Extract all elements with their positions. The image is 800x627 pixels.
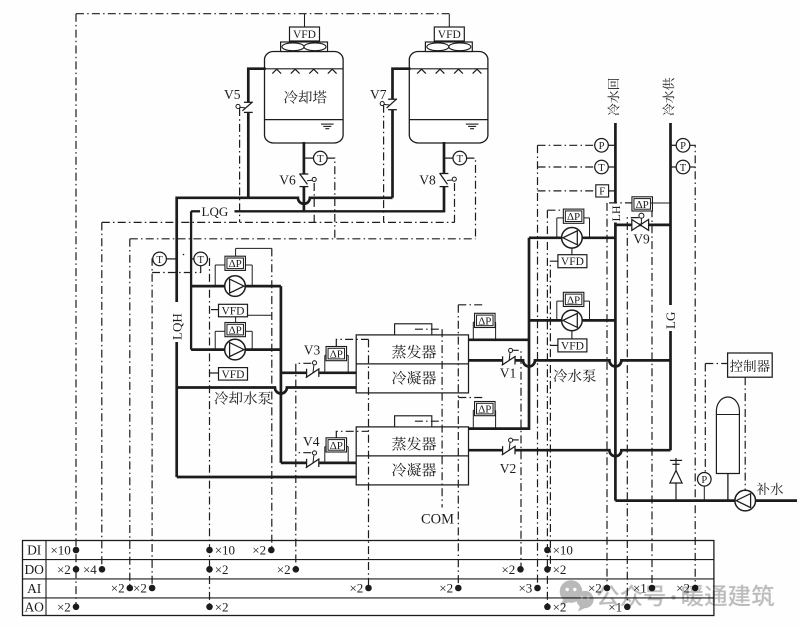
svg-text:F: F: [599, 186, 605, 198]
svg-text:V4: V4: [303, 434, 320, 449]
svg-text:VFD: VFD: [561, 340, 584, 352]
svg-text:ΔP: ΔP: [478, 404, 491, 416]
svg-text:×2: ×2: [57, 562, 71, 577]
svg-text:AI: AI: [27, 581, 42, 596]
svg-text:DI: DI: [27, 543, 42, 558]
svg-text:VFD: VFD: [293, 29, 316, 41]
svg-text:ΔP: ΔP: [478, 315, 491, 327]
svg-text:VFD: VFD: [561, 256, 584, 268]
svg-text:LQG: LQG: [202, 204, 229, 219]
svg-text:×2: ×2: [215, 562, 229, 577]
svg-text:×2: ×2: [501, 562, 515, 577]
svg-text:AO: AO: [24, 600, 44, 615]
svg-text:×10: ×10: [553, 543, 573, 558]
svg-text:V5: V5: [224, 87, 241, 102]
svg-text:LQH: LQH: [169, 313, 184, 340]
svg-text:×2: ×2: [553, 562, 567, 577]
svg-text:ΔP: ΔP: [229, 325, 242, 337]
svg-text:ΔP: ΔP: [229, 258, 242, 270]
svg-text:T: T: [457, 154, 464, 165]
svg-text:LG: LG: [663, 312, 678, 329]
svg-text:V9: V9: [633, 232, 650, 247]
svg-text:COM: COM: [421, 512, 454, 528]
svg-text:VFD: VFD: [438, 29, 461, 41]
svg-text:V6: V6: [279, 173, 296, 188]
svg-text:V2: V2: [500, 461, 517, 476]
svg-text:VFD: VFD: [221, 306, 244, 318]
svg-text:V8: V8: [419, 173, 436, 188]
svg-text:V3: V3: [304, 343, 321, 358]
svg-text:ΔP: ΔP: [330, 440, 343, 452]
svg-text:×2: ×2: [215, 599, 229, 614]
svg-text:T: T: [317, 154, 324, 165]
svg-text:P: P: [701, 475, 707, 486]
svg-text:P: P: [599, 141, 605, 152]
svg-text:ΔP: ΔP: [567, 211, 580, 223]
svg-text:T: T: [197, 255, 204, 266]
svg-text:×2: ×2: [57, 599, 71, 614]
svg-text:LH: LH: [609, 205, 623, 221]
svg-text:×2: ×2: [252, 543, 266, 558]
svg-text:P: P: [680, 141, 686, 152]
svg-text:DO: DO: [24, 562, 44, 577]
svg-text:×2: ×2: [133, 581, 147, 596]
svg-text:×4: ×4: [83, 562, 97, 577]
svg-text:V1: V1: [500, 366, 517, 381]
svg-text:×2: ×2: [349, 581, 363, 596]
svg-text:×3: ×3: [518, 581, 532, 596]
svg-text:×10: ×10: [215, 543, 235, 558]
svg-text:T: T: [156, 255, 163, 266]
svg-text:ΔP: ΔP: [567, 294, 580, 306]
svg-text:T: T: [598, 163, 605, 174]
svg-text:×10: ×10: [50, 543, 70, 558]
svg-text:VFD: VFD: [221, 369, 244, 381]
svg-text:×2: ×2: [277, 562, 291, 577]
svg-text:×2: ×2: [111, 581, 125, 596]
svg-text:T: T: [680, 163, 687, 174]
svg-text:V7: V7: [370, 87, 387, 102]
svg-text:ΔP: ΔP: [330, 349, 343, 361]
svg-text:×2: ×2: [439, 581, 453, 596]
svg-text:ΔP: ΔP: [636, 199, 649, 211]
